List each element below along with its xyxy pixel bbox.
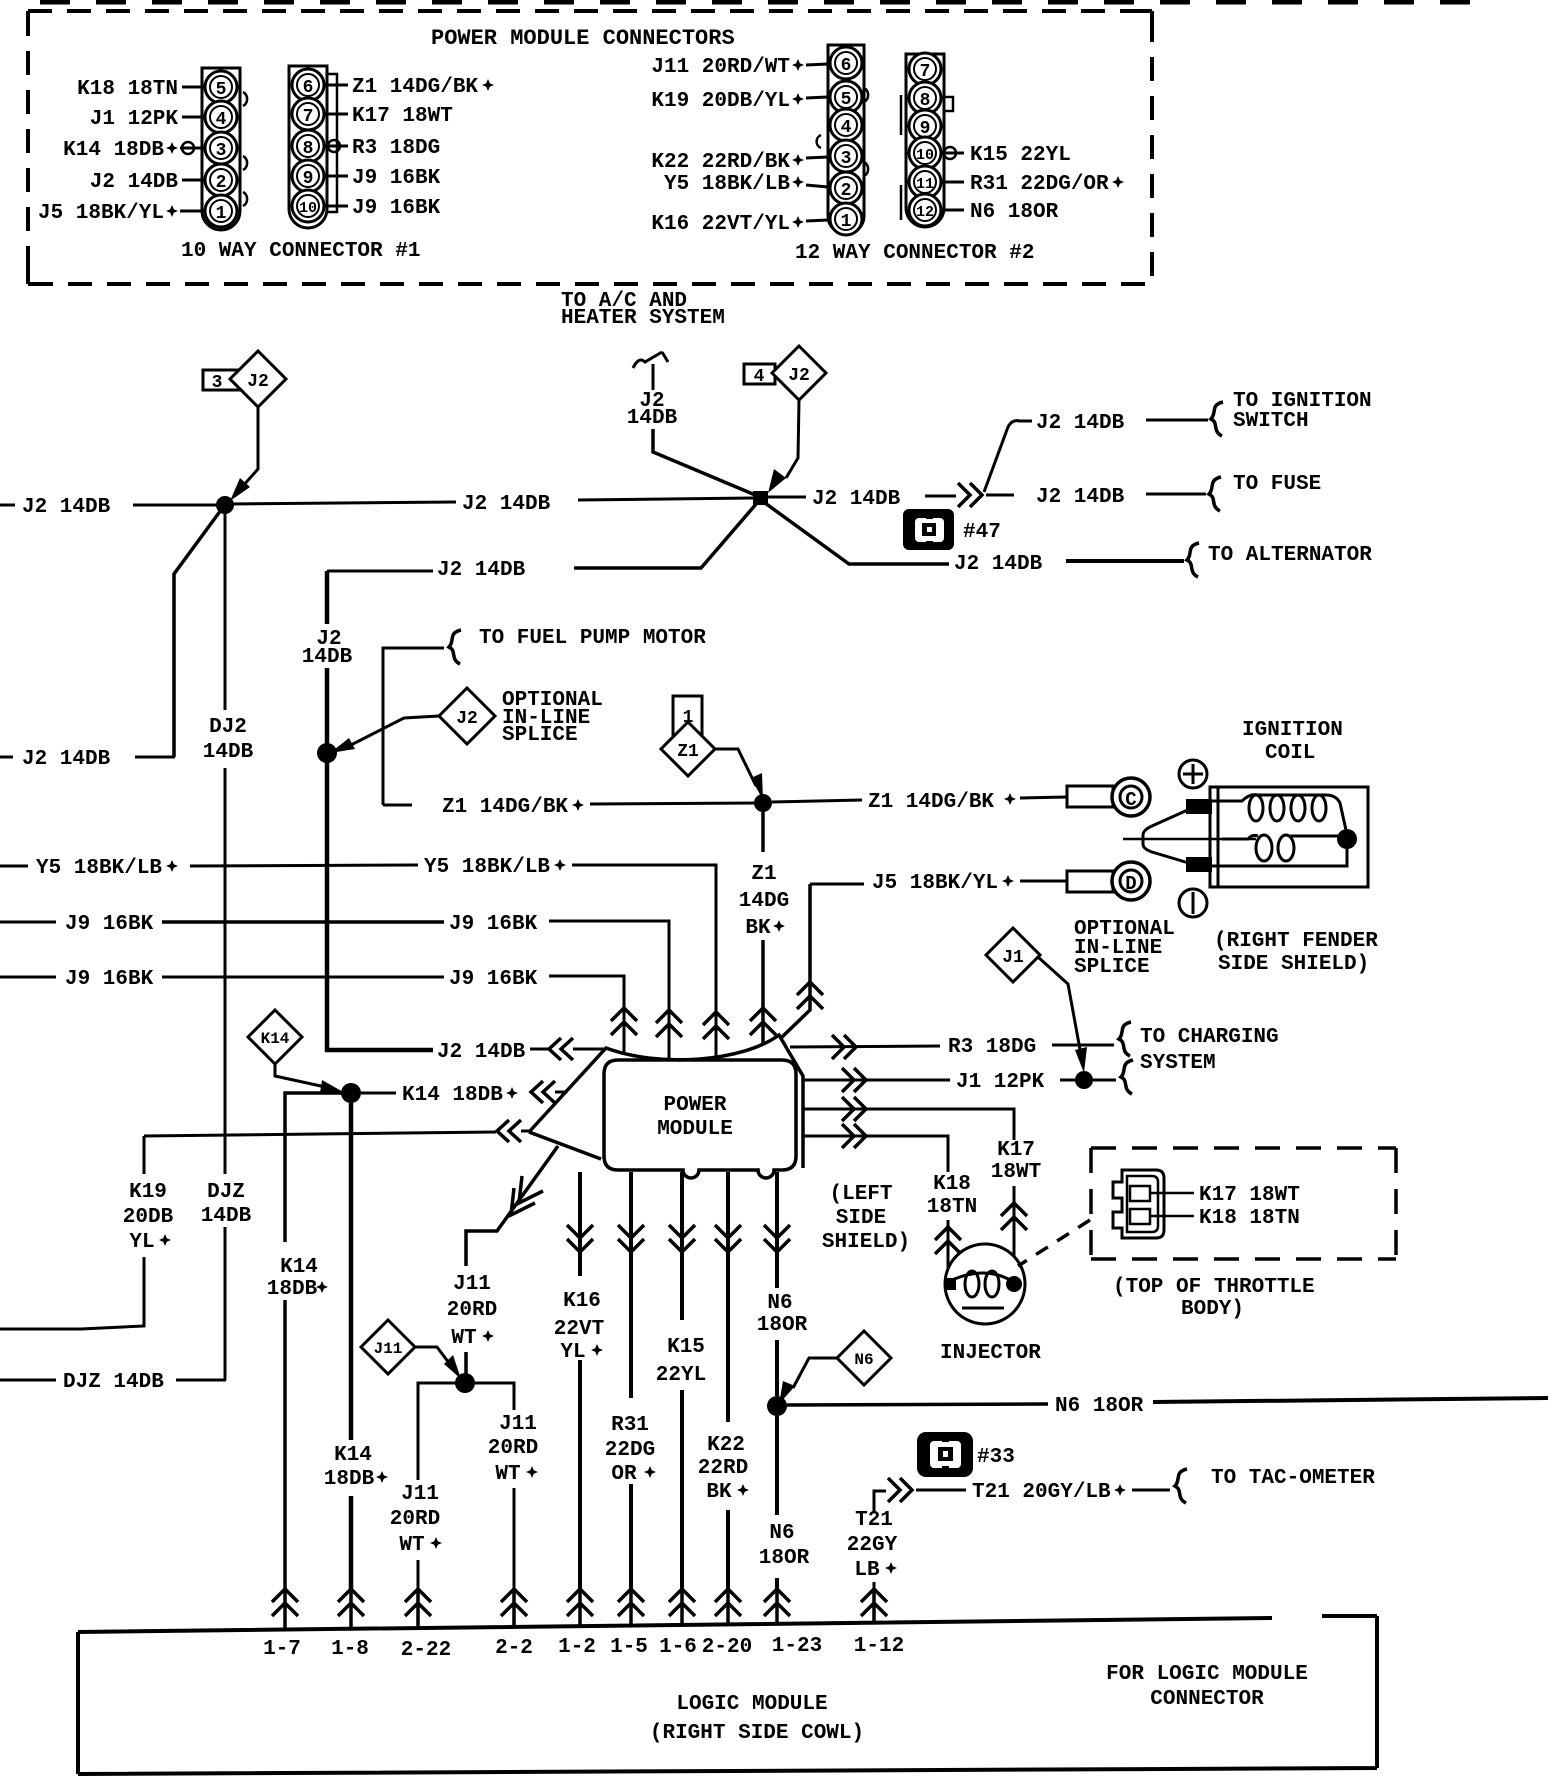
splice diamond J11 xyxy=(361,1320,415,1374)
svg-text:1-12: 1-12 xyxy=(854,1635,904,1658)
wire K22 module to pin 2-20 xyxy=(726,1172,730,1590)
wire cavity to label K17 xyxy=(1150,1192,1194,1195)
wire junction E to bracket xyxy=(1093,1079,1116,1082)
svg-text:R31: R31 xyxy=(611,1414,649,1437)
svg-text:WT: WT xyxy=(495,1463,520,1486)
wire K18 down to injector xyxy=(947,1220,950,1282)
pin 2 xyxy=(205,164,237,196)
wires into logic module xyxy=(285,1588,874,1630)
wire J5 branch xyxy=(810,883,864,886)
pin 4 conn2 xyxy=(830,109,862,141)
svg-text:10 WAY CONNECTOR #1: 10 WAY CONNECTOR #1 xyxy=(181,240,420,263)
bracket to alternator xyxy=(1187,543,1199,577)
svg-text:J2 14DB: J2 14DB xyxy=(954,553,1043,576)
svg-text:Y5 18BK/LB: Y5 18BK/LB xyxy=(36,857,162,880)
svg-text:K18: K18 xyxy=(933,1173,971,1196)
svg-text:1-7: 1-7 xyxy=(263,1638,301,1661)
svg-text:18OR: 18OR xyxy=(757,1314,808,1337)
wire diamond J2(3) to junction A xyxy=(235,407,258,495)
svg-text:K17: K17 xyxy=(997,1139,1035,1162)
svg-text:R3 18DG: R3 18DG xyxy=(352,137,440,160)
svg-text:DJZ 14DB: DJZ 14DB xyxy=(63,1371,164,1394)
wire chevron to T21 label xyxy=(916,1489,966,1492)
svg-text:J2 14DB: J2 14DB xyxy=(1036,412,1125,435)
wire fuel pump branch riser xyxy=(383,648,444,805)
svg-text:J9 16BK: J9 16BK xyxy=(65,913,154,936)
svg-text:J9 16BK: J9 16BK xyxy=(65,968,154,991)
label Z1 14DG/BK pin6 xyxy=(324,84,348,87)
wire J9 row2 to module xyxy=(549,976,624,1055)
plus terminal symbol xyxy=(1179,760,1207,788)
coil terminal stud upper xyxy=(1186,799,1212,814)
svg-text:1: 1 xyxy=(216,204,227,224)
svg-text:J2 14DB: J2 14DB xyxy=(812,488,901,511)
svg-text:K14 18DB: K14 18DB xyxy=(63,139,164,162)
svg-text:11: 11 xyxy=(916,176,934,193)
svg-text:2: 2 xyxy=(216,173,227,193)
wire diamond J11 to junction G xyxy=(415,1347,452,1367)
wire diagonal up to ignition row xyxy=(984,421,1020,492)
wire Y5 row left edge xyxy=(0,865,28,868)
wire chevron to module edge (J2) xyxy=(573,1048,604,1051)
ignition coil case xyxy=(1210,787,1368,887)
chevrons down K22 xyxy=(715,1225,741,1252)
svg-text:14DG: 14DG xyxy=(739,890,789,913)
wire J5 vertical to module xyxy=(781,884,810,1038)
svg-text:10: 10 xyxy=(299,200,317,217)
svg-text:7: 7 xyxy=(303,107,314,127)
svg-text:3: 3 xyxy=(841,149,852,169)
arrowhead into junction F xyxy=(320,1080,345,1093)
grommet #47 xyxy=(903,509,954,550)
svg-text:TO CHARGING: TO CHARGING xyxy=(1140,1026,1279,1049)
svg-text:(RIGHT FENDER: (RIGHT FENDER xyxy=(1214,930,1378,953)
svg-text:22GY: 22GY xyxy=(847,1534,898,1557)
splice diamond K14 xyxy=(248,1010,302,1064)
svg-text:LB: LB xyxy=(854,1559,880,1582)
svg-text:6: 6 xyxy=(303,78,314,98)
svg-text:YL: YL xyxy=(560,1341,585,1364)
svg-text:(RIGHT SIDE COWL): (RIGHT SIDE COWL) xyxy=(650,1722,864,1745)
chevrons up J9 row2 into module xyxy=(611,1008,637,1035)
chevrons up K17 xyxy=(1001,1203,1027,1230)
wire T21 to pin 1-12 xyxy=(873,1582,876,1590)
svg-text:18OR: 18OR xyxy=(759,1547,810,1570)
svg-text:J2 14DB: J2 14DB xyxy=(22,496,111,519)
svg-text:BK: BK xyxy=(706,1481,732,1504)
pin 2 conn2 xyxy=(830,172,862,204)
svg-text:N6: N6 xyxy=(769,1522,794,1545)
wire diamond Z1 to junction D xyxy=(715,749,756,786)
chevrons up pin 1-23 xyxy=(764,1589,790,1616)
svg-text:J9 16BK: J9 16BK xyxy=(352,197,441,220)
junction F dot xyxy=(341,1083,361,1103)
pin 9 conn2 xyxy=(909,110,941,142)
wire K19 horizontal to module xyxy=(144,1132,496,1136)
svg-text:22YL: 22YL xyxy=(656,1364,706,1387)
wire J1 from module xyxy=(802,1079,950,1082)
chevrons on J11 diagonal xyxy=(511,1176,543,1215)
chevrons up pin 2-2 xyxy=(501,1589,527,1616)
splice diamond J2 (in-line) xyxy=(439,688,495,744)
svg-text:K16 22VT/YL: K16 22VT/YL xyxy=(651,213,790,236)
chevrons up pin 1-7 xyxy=(272,1589,298,1616)
svg-text:T21: T21 xyxy=(855,1509,893,1532)
svg-text:INJECTOR: INJECTOR xyxy=(940,1342,1041,1365)
svg-text:DJZ: DJZ xyxy=(207,1181,245,1204)
wire to chevron xyxy=(925,495,956,498)
svg-text:J9 16BK: J9 16BK xyxy=(449,913,538,936)
secondary winding xyxy=(1222,835,1338,839)
wire J9 row2 left edge xyxy=(0,976,56,979)
wire junction G east leg to pin 2-2 xyxy=(475,1383,514,1590)
svg-text:J2: J2 xyxy=(456,709,478,729)
injector coil loops xyxy=(965,1271,979,1297)
svg-text:N6 18OR: N6 18OR xyxy=(1055,1395,1144,1418)
wire T21 label to bracket xyxy=(1132,1489,1170,1492)
label J9 16BK pin10 xyxy=(324,205,348,208)
svg-text:4: 4 xyxy=(841,118,852,138)
wire junction D east xyxy=(772,800,862,802)
pin 1 conn2 xyxy=(830,203,862,235)
svg-text:20RD: 20RD xyxy=(390,1508,440,1531)
label K17 18WT pin7 xyxy=(324,113,348,116)
svg-text:R3 18DG: R3 18DG xyxy=(948,1036,1036,1059)
pin 8 xyxy=(292,130,324,162)
wire alternator label to bracket xyxy=(1066,559,1184,563)
10 way connector #1 column B body xyxy=(289,66,327,228)
arrowhead into junction E xyxy=(1075,1047,1087,1073)
svg-text:WT: WT xyxy=(399,1534,424,1557)
wire J2 to A/C fork xyxy=(652,364,655,390)
svg-text:K14: K14 xyxy=(261,1030,290,1048)
svg-text:22DG: 22DG xyxy=(605,1439,655,1462)
svg-text:2-2: 2-2 xyxy=(495,1637,533,1660)
svg-text:22RD: 22RD xyxy=(698,1457,748,1480)
svg-text:DJ2: DJ2 xyxy=(209,716,247,739)
exit chevron K18 xyxy=(842,1124,866,1148)
bracket to tachometer xyxy=(1175,1469,1187,1503)
wire N6 module to pin 1-23 xyxy=(775,1172,779,1590)
splice diamond N6 xyxy=(837,1331,891,1385)
svg-text:7: 7 xyxy=(920,62,931,82)
svg-text:J9 16BK: J9 16BK xyxy=(352,167,441,190)
svg-text:CONNECTOR: CONNECTOR xyxy=(1150,1688,1264,1711)
pin 10 xyxy=(292,190,324,222)
arrowhead into junction H xyxy=(779,1381,795,1404)
svg-text:J11: J11 xyxy=(499,1413,537,1436)
svg-text:TO FUSE: TO FUSE xyxy=(1233,473,1321,496)
svg-text:5: 5 xyxy=(841,90,852,110)
svg-text:J2: J2 xyxy=(247,372,269,392)
svg-text:4: 4 xyxy=(754,367,765,387)
svg-text:1-23: 1-23 xyxy=(772,1635,822,1658)
svg-text:T21 20GY/LB: T21 20GY/LB xyxy=(972,1481,1111,1504)
pin 7 conn2 xyxy=(909,53,941,85)
svg-text:SPLICE: SPLICE xyxy=(1074,956,1150,979)
chevrons up pin 1-2 xyxy=(567,1589,593,1616)
wire K15 module to pin 1-6 xyxy=(680,1172,684,1590)
wire ignition row xyxy=(1018,420,1032,423)
splice diamond J1 xyxy=(986,928,1040,982)
wire Y5 to module xyxy=(572,865,716,1059)
label N6 18OR pin12 xyxy=(941,209,964,212)
arrowhead into junction A xyxy=(230,478,250,501)
dashed leader to injector xyxy=(1018,1220,1090,1266)
wire junction B southeast leg to alternator xyxy=(765,503,949,564)
svg-text:18DB: 18DB xyxy=(324,1468,375,1491)
chevrons down K15 xyxy=(669,1225,695,1252)
svg-text:J2 14DB: J2 14DB xyxy=(22,748,111,771)
wire junction A east xyxy=(232,502,456,504)
svg-text:J11 20RD/WT: J11 20RD/WT xyxy=(651,56,790,79)
coil tower funnel xyxy=(1143,808,1192,864)
svg-text:K14: K14 xyxy=(280,1256,318,1279)
svg-text:J2 14DB: J2 14DB xyxy=(437,1041,526,1064)
svg-text:J2 14DB: J2 14DB xyxy=(437,559,526,582)
wire N6 18OR row east xyxy=(787,1404,1048,1405)
chevrons into module J2 xyxy=(549,1038,573,1060)
svg-text:#33: #33 xyxy=(977,1446,1015,1469)
svg-text:18TN: 18TN xyxy=(927,1196,977,1219)
junction B dot xyxy=(753,491,768,505)
svg-text:BK: BK xyxy=(745,917,771,940)
wire chevron to fuse label xyxy=(986,494,1014,497)
junction G dot xyxy=(455,1373,475,1393)
wire K17 down to injector xyxy=(1013,1186,1016,1282)
dashed border box: power module connectors xyxy=(28,11,1152,284)
svg-text:6: 6 xyxy=(841,56,852,76)
exit chevron J1 xyxy=(842,1068,866,1092)
coil center lead xyxy=(1123,838,1256,841)
exit chevron R3 xyxy=(832,1035,856,1059)
svg-text:J1 12PK: J1 12PK xyxy=(956,1071,1045,1094)
chevrons up K18 xyxy=(935,1227,961,1254)
svg-text:3: 3 xyxy=(212,373,223,393)
svg-text:K14 18DB: K14 18DB xyxy=(402,1084,503,1107)
svg-text:HEATER SYSTEM: HEATER SYSTEM xyxy=(561,307,725,330)
svg-text:J2 14DB: J2 14DB xyxy=(1036,486,1125,509)
wire left edge stub DJZ xyxy=(0,1379,56,1382)
ref box 4 xyxy=(744,364,775,384)
wire J9 row1 to module xyxy=(549,921,669,1060)
wire junction F west leg to pin 1-7 xyxy=(285,1093,342,1590)
pin 3 conn2 xyxy=(830,140,862,172)
svg-text:K16: K16 xyxy=(563,1290,601,1313)
svg-text:Z1 14DG/BK: Z1 14DG/BK xyxy=(868,791,994,814)
svg-text:TO ALTERNATOR: TO ALTERNATOR xyxy=(1208,544,1372,567)
wire stub pin3 with hook xyxy=(180,147,205,150)
svg-text:14DB: 14DB xyxy=(627,407,678,430)
throttle body connector xyxy=(1113,1170,1164,1238)
svg-text:J11: J11 xyxy=(453,1273,491,1296)
svg-text:14DB: 14DB xyxy=(302,646,353,669)
svg-text:COIL: COIL xyxy=(1265,742,1315,765)
svg-text:Y5 18BK/LB: Y5 18BK/LB xyxy=(424,856,550,879)
wire Z1 vertical to module xyxy=(761,812,765,1043)
wire T21 corner xyxy=(874,1491,886,1512)
svg-text:POWER MODULE CONNECTORS: POWER MODULE CONNECTORS xyxy=(431,26,735,51)
pin 5 conn2 xyxy=(830,81,862,113)
injector terminals xyxy=(944,1278,956,1290)
wire to ring terminal D xyxy=(1020,880,1066,883)
ring terminal D xyxy=(1067,871,1113,892)
chevrons up Y5 into module xyxy=(703,1012,729,1039)
svg-text:J2: J2 xyxy=(788,366,810,386)
wire J9 row2 to mid label xyxy=(162,976,444,979)
pin 6 xyxy=(292,69,324,101)
svg-text:K18 18TN: K18 18TN xyxy=(1199,1207,1300,1230)
svg-text:3: 3 xyxy=(216,141,227,161)
svg-text:SYSTEM: SYSTEM xyxy=(1140,1052,1216,1075)
label K15 22YL pin10 xyxy=(941,152,964,155)
wire junction F south leg to pin 1-8 xyxy=(349,1103,354,1590)
wire stub pin1 xyxy=(180,210,205,213)
pin 6 conn2 xyxy=(830,47,862,79)
wire J11 from module diagonal xyxy=(466,1146,558,1374)
wire diamond J1 to junction E xyxy=(1038,957,1081,1055)
chevrons up pin 2-20 xyxy=(715,1589,741,1616)
wire fuse label to bracket xyxy=(1146,493,1206,496)
svg-text:22VT: 22VT xyxy=(554,1318,604,1341)
svg-text:#47: #47 xyxy=(963,521,1001,544)
svg-text:K22: K22 xyxy=(707,1434,745,1457)
svg-text:1-8: 1-8 xyxy=(331,1638,369,1661)
wire J2 14DB main vertical xyxy=(327,571,433,1050)
chevrons up J9 row1 into module xyxy=(656,1010,682,1037)
wire DJ2 to left edge xyxy=(176,1379,226,1382)
svg-text:4: 4 xyxy=(216,110,227,130)
exit chevron K17 xyxy=(842,1097,866,1121)
svg-text:K19: K19 xyxy=(129,1181,167,1204)
bracket to ignition switch xyxy=(1211,402,1223,436)
svg-text:J5 18BK/YL: J5 18BK/YL xyxy=(38,202,164,225)
wire junction B southwest leg xyxy=(574,503,757,568)
wire stub pin4 xyxy=(182,116,205,119)
12 way connector #2 column B body xyxy=(906,54,944,227)
bracket to charging system upper xyxy=(1119,1022,1131,1056)
svg-text:2-20: 2-20 xyxy=(702,1636,752,1659)
svg-text:8: 8 xyxy=(920,91,931,111)
svg-text:D: D xyxy=(1125,873,1136,895)
exit chevron T21 xyxy=(888,1478,912,1502)
svg-text:9: 9 xyxy=(303,169,314,189)
power module inner body xyxy=(604,1060,796,1178)
wire corner to label row2 xyxy=(327,570,433,573)
svg-text:SPLICE: SPLICE xyxy=(502,724,578,747)
power module U1 outer shell xyxy=(529,1035,803,1168)
svg-text:(LEFT: (LEFT xyxy=(829,1183,892,1206)
svg-text:K18 18TN: K18 18TN xyxy=(77,78,178,101)
svg-text:C: C xyxy=(1125,789,1136,811)
wire diamond N6 to junction H xyxy=(793,1358,837,1388)
coil terminal stud lower xyxy=(1186,857,1212,872)
wire Y5 to mid label xyxy=(190,865,418,866)
svg-text:K19 20DB/YL: K19 20DB/YL xyxy=(651,90,790,113)
wire J9 row1 to mid label xyxy=(162,920,444,924)
svg-text:Z1: Z1 xyxy=(751,863,776,886)
svg-text:N6: N6 xyxy=(854,1351,873,1369)
svg-text:TO FUEL PUMP MOTOR: TO FUEL PUMP MOTOR xyxy=(479,627,706,650)
splice diamond Z1 xyxy=(661,722,715,776)
wire ignition label to bracket xyxy=(1146,419,1208,422)
wire junction A southwest leg xyxy=(174,510,221,757)
chevrons down K16 xyxy=(567,1225,593,1252)
label R3 18DG pin8 xyxy=(324,145,348,148)
svg-text:J2 14DB: J2 14DB xyxy=(462,493,551,516)
ref box 1 xyxy=(673,696,702,737)
svg-text:N6 18OR: N6 18OR xyxy=(970,201,1059,224)
pin 12 conn2 xyxy=(909,194,941,226)
wire K17 from module xyxy=(802,1109,1014,1140)
wire DJ2 14DB vertical xyxy=(224,513,227,1380)
injector body xyxy=(945,1244,1025,1324)
svg-text:1-5: 1-5 xyxy=(610,1636,648,1659)
svg-text:YL: YL xyxy=(129,1231,154,1254)
wire J9 row1 left edge xyxy=(0,921,56,924)
10 way connector #1 column A body xyxy=(202,68,240,230)
splice diamond J2 (4) xyxy=(772,346,826,400)
svg-text:12: 12 xyxy=(916,204,934,221)
wire stub pin2 xyxy=(182,179,205,182)
label R31 22DG/OR pin11 xyxy=(941,181,964,184)
wire junction F east xyxy=(361,1092,396,1095)
bracket to fuel pump xyxy=(449,630,461,664)
label J9 16BK pin9 xyxy=(324,175,348,178)
wire cavity to label K18 xyxy=(1150,1215,1194,1218)
svg-text:18DB: 18DB xyxy=(267,1278,318,1301)
svg-text:BODY): BODY) xyxy=(1181,1298,1244,1321)
wire to junction B xyxy=(578,498,753,500)
wire to Z1 junction xyxy=(590,803,756,804)
svg-text:MODULE: MODULE xyxy=(657,1118,733,1141)
svg-text:2: 2 xyxy=(841,181,852,201)
wire J2 14DB left edge row xyxy=(0,504,15,507)
svg-text:K17 18WT: K17 18WT xyxy=(1199,1184,1300,1207)
exit chevron right (fuse feed) xyxy=(958,483,982,507)
injector base line xyxy=(962,1307,1004,1310)
arrowhead into junction G xyxy=(444,1355,461,1379)
grommet #33 xyxy=(917,1432,973,1477)
svg-text:(TOP OF THROTTLE: (TOP OF THROTTLE xyxy=(1113,1276,1315,1299)
pin 5 xyxy=(205,71,237,103)
wire A/C drop to junction xyxy=(653,429,760,497)
svg-text:K15 22YL: K15 22YL xyxy=(970,144,1071,167)
svg-text:SHIELD): SHIELD) xyxy=(822,1231,910,1254)
wire corner to left label xyxy=(135,756,175,759)
wire stub pin5 xyxy=(182,86,205,89)
wire label to chevron (J2) xyxy=(530,1048,548,1051)
svg-text:J1: J1 xyxy=(1002,948,1024,968)
svg-text:WT: WT xyxy=(451,1327,476,1350)
arrowhead into junction D xyxy=(751,773,763,800)
chevrons up pin 1-5 xyxy=(618,1589,644,1616)
svg-text:20RD: 20RD xyxy=(447,1299,497,1322)
wire K16 module to pin 1-2 xyxy=(578,1172,582,1590)
svg-text:20RD: 20RD xyxy=(488,1437,538,1460)
chevrons down N6 xyxy=(764,1225,790,1252)
wire R3 from module xyxy=(790,1046,940,1047)
svg-text:K22 22RD/BK: K22 22RD/BK xyxy=(651,151,790,174)
svg-text:J11: J11 xyxy=(374,1340,403,1358)
svg-text:1-2: 1-2 xyxy=(558,1636,596,1659)
wire Z1 row from fuel branch xyxy=(383,804,412,807)
pin 10 conn2 xyxy=(909,137,941,169)
pin 9 xyxy=(292,160,324,192)
minus terminal symbol xyxy=(1179,889,1207,917)
dashed box top of throttle body xyxy=(1091,1148,1396,1259)
svg-text:K15: K15 xyxy=(667,1336,705,1359)
